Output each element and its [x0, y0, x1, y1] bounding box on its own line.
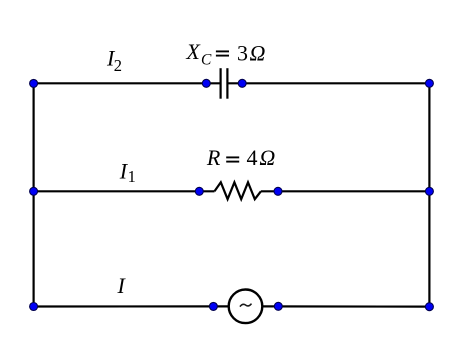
wire middle rail left segment [34, 190, 215, 192]
node capacitor left terminal [202, 79, 210, 87]
label equals sign of R value [226, 157, 239, 161]
wire left vertical [32, 83, 34, 306]
capacitor XC left plate [220, 68, 222, 99]
wire top rail right segment [228, 82, 429, 84]
wire bottom rail left segment [34, 305, 228, 307]
node top-left corner [30, 79, 38, 87]
capacitor XC right plate [226, 68, 228, 99]
AC source sine symbol [240, 304, 252, 307]
node resistor right terminal [274, 187, 282, 195]
node middle-right junction [425, 187, 433, 195]
node bottom-right corner [425, 303, 433, 311]
wire top rail left segment [34, 82, 220, 84]
node middle-left junction [30, 187, 38, 195]
node source right terminal [274, 302, 282, 310]
node top-right corner [425, 79, 433, 87]
node resistor left terminal [195, 187, 203, 195]
AC source circle [229, 290, 263, 324]
label equals sign of XC value [216, 51, 229, 55]
node bottom-left corner [30, 303, 38, 311]
node capacitor right terminal [238, 79, 246, 87]
resistor R zigzag [215, 182, 261, 199]
wire right vertical [428, 83, 430, 306]
wire middle rail right segment [261, 190, 430, 192]
node source left terminal [209, 302, 217, 310]
wire bottom rail right segment [263, 305, 429, 307]
